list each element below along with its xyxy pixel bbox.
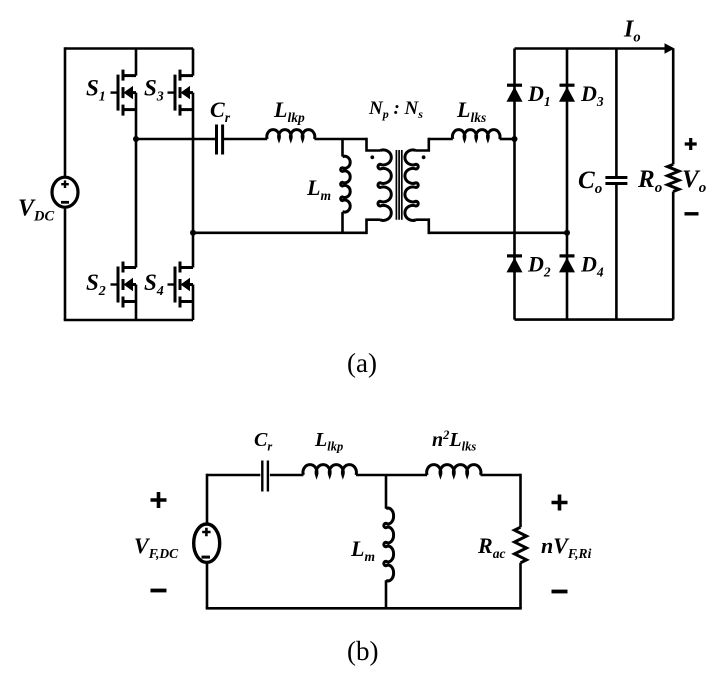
wire diode leg D3 D4: [566, 49, 569, 320]
capacitor Cr (b) plates: [262, 461, 268, 492]
transistor S2 body bar: [122, 279, 125, 290]
inductor Lm (a): [341, 156, 351, 212]
inductor n2Llks: [427, 465, 481, 475]
diode D4 anode triangle: [559, 258, 575, 273]
V_DC minus sign: [61, 201, 69, 204]
capacitor Co plates: [605, 178, 627, 184]
transistor S3 source bar: [179, 105, 182, 116]
wire rectifier top rail: [515, 47, 667, 50]
source V_DC circle: [52, 177, 78, 207]
wire leg1 S2 source to bottom: [135, 285, 138, 321]
transistor S2 top lead: [123, 266, 136, 269]
transistor S1 body link: [131, 91, 136, 94]
wire Co leg upper: [615, 49, 618, 177]
transistor S2 bottom lead: [123, 300, 136, 303]
V_F,DC minus sign: [202, 556, 211, 559]
label minus (b) right: [552, 590, 568, 594]
label plus (b) right: [552, 495, 568, 511]
resistor Rac zigzag: [515, 527, 527, 563]
transistor S4 body bar: [179, 279, 182, 290]
transistor S3 gate bar: [174, 75, 177, 111]
inductor Llks: [452, 130, 500, 139]
svg-text:(a): (a): [347, 348, 377, 378]
transistor S3 top lead: [180, 74, 193, 77]
V_F,DC plus sign: [202, 528, 210, 536]
transistor S2 drain bar: [122, 262, 125, 273]
transformer primary bottom lead: [367, 220, 381, 234]
transistor S2 source bar: [122, 297, 125, 308]
wire node B to primary bottom: [193, 232, 367, 235]
transistor S1 bottom lead: [123, 108, 136, 111]
wire diode leg D1 D2: [513, 49, 516, 320]
wire leg2 drain S3: [192, 49, 195, 76]
rectifier return junction dot: [564, 230, 570, 236]
wire Llks to rectifier node: [500, 138, 515, 141]
transformer primary winding Np: [378, 150, 391, 221]
transistor S3 body bar: [179, 87, 182, 98]
label Vo plus sign: [685, 138, 697, 150]
transistor S4 body link: [188, 283, 193, 286]
node B junction dot: [190, 230, 196, 236]
diode D4 cathode bar: [560, 254, 575, 257]
transistor S1 body-diode arrow: [124, 86, 134, 99]
wire leg1 S1 source to node A: [135, 93, 138, 268]
transformer core lines: [396, 150, 401, 220]
diode D2 anode triangle: [507, 258, 523, 273]
wire Cr to Llkp: [224, 138, 267, 141]
transistor S1 gate bar: [117, 75, 120, 111]
wire n2Llks to right corner (b): [481, 474, 521, 477]
rectifier input junction dot: [512, 136, 518, 142]
wire Ro leg upper: [672, 49, 675, 165]
transistor S2 gate lead: [111, 283, 119, 285]
wire (b) right vertical upper: [519, 474, 522, 528]
wire Llkp to n2Llks (b): [356, 474, 427, 477]
transistor S1 source bar: [122, 105, 125, 116]
transistor S1 gate lead: [111, 91, 119, 93]
diode D1 anode triangle: [507, 87, 523, 102]
wire (b) left vertical upper: [206, 474, 209, 525]
wire leg1 drain S1: [135, 49, 138, 76]
resistor Ro zigzag: [668, 164, 679, 191]
wire Llkp to primary: [314, 138, 366, 141]
wire leg2 S4 source to bottom: [192, 285, 195, 321]
transistor S4 top lead: [180, 266, 193, 269]
transformer primary top lead: [367, 138, 381, 151]
wire left vertical lower: [64, 207, 67, 320]
transistor S3 body-diode arrow: [181, 86, 191, 99]
transformer secondary polarity dot: [422, 155, 426, 159]
transistor S2 gate bar: [117, 267, 120, 303]
wire rectifier bottom rail: [515, 318, 674, 321]
label Vo minus sign: [685, 212, 699, 215]
inductor Lm (b): [384, 508, 394, 581]
transformer primary polarity dot: [370, 155, 374, 159]
transistor S1 top lead: [123, 74, 136, 77]
wire secondary to Llks: [429, 138, 453, 141]
transformer secondary bottom lead: [416, 220, 429, 234]
svg-text:Np : Ns: Np : Ns: [368, 98, 423, 121]
transistor S1 drain bar: [122, 70, 125, 81]
diode D3 cathode bar: [560, 84, 575, 87]
transistor S4 drain bar: [179, 262, 182, 273]
source V_F,DC ellipse: [194, 524, 220, 562]
transformer secondary top lead: [416, 138, 429, 151]
arrow Io: [665, 43, 675, 53]
wire top rail (a) input bridge: [65, 47, 193, 50]
wire (b) top left segment: [207, 474, 260, 477]
wire (b) bottom rail: [206, 607, 522, 610]
wire (b) left vertical lower: [206, 562, 209, 608]
diode D2 cathode bar: [507, 254, 522, 257]
wire left vertical upper: [64, 47, 67, 177]
transistor S4 bottom lead: [180, 300, 193, 303]
transistor S2 body link: [131, 283, 136, 286]
wire Lm (b) top stub: [385, 475, 388, 509]
transistor S3 drain bar: [179, 70, 182, 81]
label plus (b) left: [151, 492, 167, 508]
V_DC plus sign: [61, 180, 69, 188]
diode D3 anode triangle: [559, 87, 575, 102]
transistor S4 gate lead: [168, 283, 176, 285]
svg-text:(b): (b): [347, 636, 378, 666]
node A junction dot: [133, 136, 139, 142]
wire bottom rail (a) input bridge: [64, 319, 193, 322]
transistor S3 bottom lead: [180, 108, 193, 111]
label minus (b) left: [151, 589, 167, 593]
wire Lm bottom stub: [341, 212, 344, 233]
transistor S2 body-diode arrow: [124, 278, 134, 291]
transistor S4 source bar: [179, 297, 182, 308]
wire Lm top stub: [341, 139, 344, 157]
wire secondary bottom to rectifier: [429, 232, 567, 235]
transistor S1 body bar: [122, 87, 125, 98]
inductor Llkp: [267, 130, 315, 139]
wire Ro leg lower: [672, 192, 675, 320]
wire Lm (b) bottom stub: [385, 580, 388, 608]
wire leg2 S3 source to node B: [192, 93, 195, 268]
transistor S3 body link: [188, 91, 193, 94]
transistor S3 gate lead: [168, 91, 176, 93]
transistor S4 body-diode arrow: [181, 278, 191, 291]
wire Cr to Llkp (b): [270, 474, 304, 477]
capacitor Cr plates: [217, 125, 223, 155]
transistor S4 gate bar: [174, 267, 177, 303]
diode D1 cathode bar: [507, 84, 522, 87]
wire node A to Cr: [136, 138, 215, 141]
transformer secondary winding Ns: [405, 150, 418, 221]
wire (b) right vertical lower: [519, 563, 522, 609]
inductor Llkp (b): [303, 465, 356, 475]
wire Co leg lower: [615, 185, 618, 320]
